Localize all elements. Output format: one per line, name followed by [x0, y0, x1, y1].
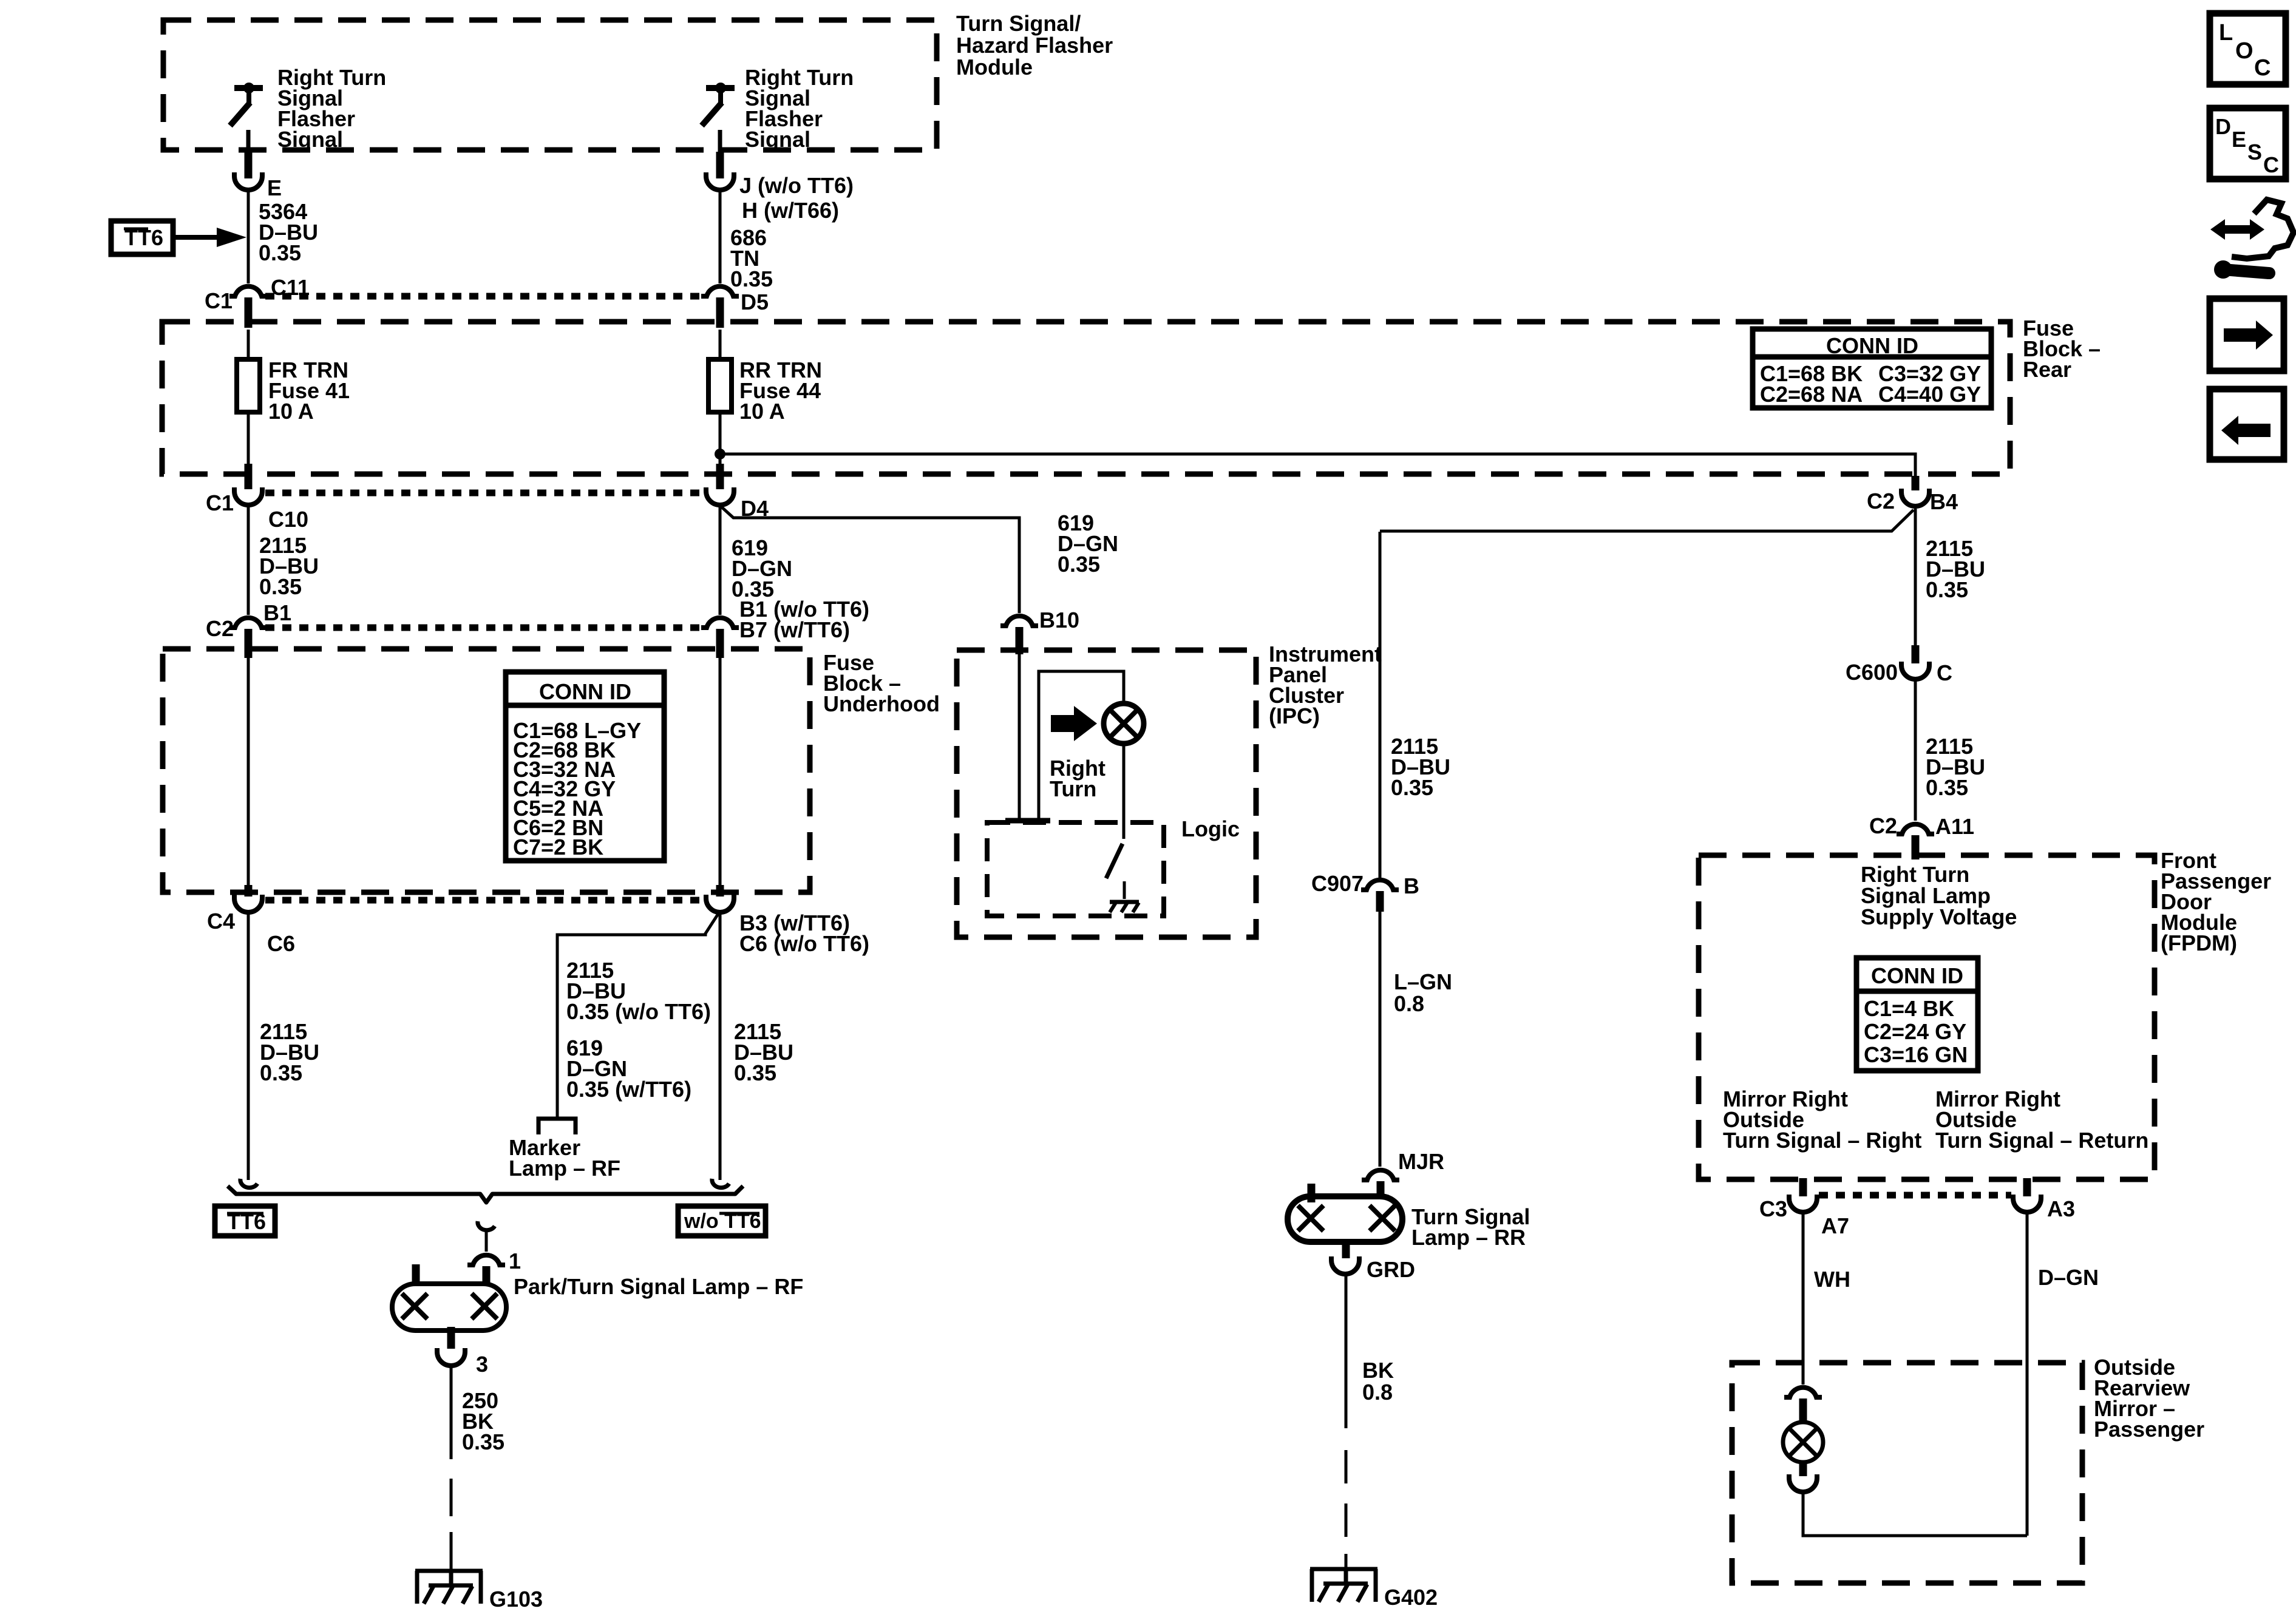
svg-text:0.35: 0.35: [462, 1429, 504, 1454]
connector C3/A7: [1799, 1178, 1807, 1196]
wire BK 0.8: [1345, 1274, 1348, 1428]
w/o TT6 tag: [678, 1206, 766, 1236]
logic switch: [1106, 844, 1123, 878]
connector C600/C: [1912, 645, 1920, 663]
svg-text:CONN ID: CONN ID: [1826, 333, 1918, 358]
svg-text:E: E: [2232, 127, 2246, 152]
svg-text:C2: C2: [1869, 813, 1897, 838]
connector pin 1: [467, 1255, 505, 1265]
svg-text:Signal: Signal: [745, 127, 810, 152]
wire loop to indicator: [1039, 671, 1124, 821]
dotted net A7-A3: [1819, 1192, 2011, 1199]
connector A3: [2023, 1178, 2031, 1196]
TT6 option box with arrow: [111, 221, 246, 254]
dotted net C4-B3: [265, 897, 703, 904]
wire: flasher output to J (right): [718, 130, 722, 153]
svg-text:BK: BK: [1362, 1358, 1394, 1383]
icon hand with arrows and wrench: [2210, 200, 2294, 279]
lamp: Park/Turn Signal Lamp - RF: [392, 1264, 803, 1349]
svg-text:0.35: 0.35: [260, 1060, 302, 1085]
svg-text:A7: A7: [1821, 1213, 1849, 1238]
wire through underhood block (left): [247, 656, 250, 886]
wire break hook (left): [240, 1179, 257, 1188]
svg-text:Signal: Signal: [277, 127, 343, 152]
svg-text:B7 (w/TT6): B7 (w/TT6): [739, 617, 850, 642]
lamp: Turn Signal Lamp - RR: [1288, 1184, 1530, 1258]
fuse F44: RR TRN Fuse 44 10 A: [719, 330, 722, 361]
svg-text:C907: C907: [1311, 871, 1364, 896]
dotted net B1-B7: [265, 625, 704, 631]
svg-text:B10: B10: [1039, 608, 1079, 632]
fuse F41: FR TRN Fuse 41 10 A: [247, 330, 250, 361]
svg-text:0.35 (w/o TT6): 0.35 (w/o TT6): [566, 999, 711, 1024]
svg-text:0.35: 0.35: [1926, 775, 1968, 800]
svg-text:C600: C600: [1846, 660, 1898, 685]
wire 2115 D-BU 0.35 (C10 to B1): [247, 505, 250, 615]
svg-text:Rear: Rear: [2023, 357, 2071, 382]
junction node after fuse 44: [715, 449, 725, 459]
svg-text:1: 1: [509, 1249, 521, 1273]
svg-text:A11: A11: [1935, 814, 1974, 839]
svg-text:C6: C6: [267, 931, 295, 956]
svg-text:0.35: 0.35: [1058, 552, 1100, 577]
svg-text:C1=4 BK: C1=4 BK: [1864, 996, 1954, 1021]
wire B10 into logic: [1018, 653, 1021, 821]
svg-text:CONN ID: CONN ID: [1871, 963, 1963, 988]
svg-text:GRD: GRD: [1367, 1257, 1415, 1282]
svg-text:L–GN: L–GN: [1394, 969, 1452, 994]
wire lamp to logic switch: [1123, 744, 1126, 839]
wire branch B3 to marker lamp: [557, 913, 719, 1117]
icon DESC: [2210, 108, 2286, 179]
svg-text:C10: C10: [268, 507, 308, 532]
CONN ID table (FPDM): [1856, 958, 1978, 1071]
svg-text:0.8: 0.8: [1394, 991, 1424, 1016]
svg-text:C4: C4: [207, 909, 235, 934]
svg-text:Passenger: Passenger: [2094, 1417, 2204, 1442]
svg-text:C: C: [2254, 55, 2271, 81]
TT6 tag: [215, 1206, 275, 1236]
wire mirror return loop: [1803, 1492, 2027, 1536]
svg-text:Turn Signal/: Turn Signal/: [956, 11, 1081, 36]
svg-text:Module: Module: [956, 55, 1033, 80]
wire L-GN 0.8: [1379, 912, 1382, 1167]
svg-text:Supply Voltage: Supply Voltage: [1861, 904, 2017, 929]
svg-text:0.35: 0.35: [259, 240, 301, 265]
svg-text:Lamp – RR: Lamp – RR: [1411, 1225, 1526, 1250]
brace merging TT6 / w-o TT6 feeds: [228, 1186, 743, 1202]
mirror lamp connector (bottom): [1799, 1461, 1807, 1476]
connector B10: [1000, 616, 1038, 626]
dotted net C10-D4: [265, 490, 703, 497]
wire 2115 D-BU 0.35 (C600 to A11): [1914, 680, 1917, 821]
icon arrow next: [2210, 299, 2284, 371]
svg-text:0.35: 0.35: [1391, 775, 1433, 800]
mirror turn signal lamp: [1783, 1422, 1823, 1462]
svg-text:B1: B1: [263, 600, 291, 625]
svg-text:Hazard Flasher: Hazard Flasher: [956, 33, 1113, 58]
svg-text:C6 (w/o TT6): C6 (w/o TT6): [739, 931, 869, 956]
svg-text:10 A: 10 A: [739, 399, 785, 424]
wire 250 BK 0.35: [450, 1366, 453, 1459]
svg-text:3: 3: [476, 1352, 488, 1377]
wire through underhood block (right): [719, 656, 722, 886]
connector pin E: [234, 172, 262, 190]
icon arrow back: [2210, 389, 2284, 459]
fuse block underhood box: [163, 649, 810, 892]
dotted net C1-D5: [265, 293, 704, 300]
svg-text:Park/Turn Signal Lamp – RF: Park/Turn Signal Lamp – RF: [514, 1274, 803, 1299]
connector D4: [716, 464, 724, 489]
svg-text:C3=16 GN: C3=16 GN: [1864, 1042, 1968, 1067]
svg-text:10 A: 10 A: [268, 399, 314, 424]
svg-text:H (w/T66): H (w/T66): [742, 198, 839, 223]
svg-text:C2=24 GY: C2=24 GY: [1864, 1019, 1966, 1044]
svg-text:C1: C1: [206, 490, 234, 515]
svg-text:Lamp – RF: Lamp – RF: [509, 1156, 620, 1181]
svg-text:D: D: [2215, 114, 2231, 139]
svg-text:0.8: 0.8: [1362, 1380, 1393, 1405]
connector pin J: [706, 172, 734, 190]
svg-text:B: B: [1404, 873, 1419, 898]
wire break hook (right): [712, 1179, 729, 1188]
wire WH: [1802, 1212, 1805, 1385]
CONN ID table (underhood): [506, 672, 664, 861]
wire break hook below brace: [478, 1221, 495, 1230]
FPDM box: Front Passenger Door Module: [1699, 855, 2155, 1179]
svg-text:D–GN: D–GN: [2038, 1265, 2099, 1290]
indicator arrow icon: [1051, 706, 1097, 741]
svg-text:L: L: [2219, 20, 2233, 46]
svg-text:0.35 (w/TT6): 0.35 (w/TT6): [566, 1077, 691, 1102]
svg-text:D5: D5: [741, 290, 769, 314]
CONN ID table (rear): [1753, 329, 1991, 408]
svg-text:G103: G103: [489, 1587, 543, 1612]
icon LOC: [2210, 13, 2286, 84]
svg-text:C: C: [2263, 152, 2279, 177]
wire 619 D-GN 0.35 (D4 down to B7): [719, 505, 722, 615]
module box: Turn Signal / Hazard Flasher Module: [163, 20, 937, 150]
svg-text:MJR: MJR: [1398, 1149, 1444, 1174]
switch S2: Right Turn Signal Flasher Signal (right): [702, 65, 854, 152]
wire 619 D-GN 0.35 (D4 branch to IPC B10): [720, 506, 1019, 613]
switch S1: Right Turn Signal Flasher Signal (left): [230, 65, 386, 152]
indicator lamp: Right Turn: [1104, 703, 1144, 744]
marker lamp RF terminal: [538, 1119, 576, 1134]
fuse block rear box: [162, 322, 2010, 474]
svg-text:Turn Signal – Right: Turn Signal – Right: [1723, 1128, 1921, 1153]
svg-text:C2=68 NA: C2=68 NA: [1760, 382, 1863, 407]
wire: junction to B4 column: [720, 454, 1915, 480]
wire D-GN: [2026, 1212, 2029, 1536]
mirror lamp connector (top): [1784, 1388, 1822, 1397]
svg-text:Logic: Logic: [1181, 816, 1240, 841]
svg-text:(IPC): (IPC): [1269, 703, 1320, 728]
svg-text:C: C: [1937, 660, 1952, 685]
svg-text:C4=40 GY: C4=40 GY: [1878, 382, 1981, 407]
svg-text:B4: B4: [1930, 489, 1958, 514]
svg-text:WH: WH: [1814, 1267, 1850, 1292]
wire (dashed run to G402): [1345, 1450, 1348, 1483]
mirror box: Outside Rearview Mirror - Passenger: [1732, 1363, 2082, 1583]
wire 2115 D-BU 0.35 (right drop): [719, 912, 722, 1180]
svg-text:S: S: [2247, 140, 2262, 164]
connector B3/C6: [716, 885, 724, 897]
wire: flasher output to E (left): [246, 130, 251, 153]
wire 686 TN 0.35: [719, 192, 722, 283]
svg-text:Turn Signal – Return: Turn Signal – Return: [1935, 1128, 2148, 1153]
logic box: [987, 822, 1164, 916]
svg-text:0.35: 0.35: [259, 574, 302, 599]
svg-text:C3: C3: [1759, 1196, 1787, 1221]
connector pin 3: [437, 1348, 465, 1366]
svg-text:G402: G402: [1384, 1585, 1438, 1610]
svg-text:J (w/o TT6): J (w/o TT6): [739, 173, 854, 198]
svg-text:(FPDM): (FPDM): [2161, 931, 2237, 955]
svg-text:0.35: 0.35: [730, 266, 773, 291]
connector GRD: [1331, 1256, 1359, 1274]
ground G402: [1310, 1569, 1438, 1610]
svg-text:CONN ID: CONN ID: [539, 679, 631, 704]
wire 5364 D-BU 0.35: [247, 192, 250, 283]
wire brace to pin 1: [485, 1232, 488, 1252]
svg-text:0.35: 0.35: [734, 1060, 776, 1085]
svg-text:C1: C1: [205, 288, 233, 313]
wire 2115 D-BU 0.35 (left drop): [247, 912, 250, 1180]
svg-text:O: O: [2235, 38, 2254, 64]
svg-text:E: E: [267, 175, 282, 200]
wire 2115 D-BU 0.35 (B4 to C600): [1914, 509, 1917, 646]
IPC box: Instrument Panel Cluster: [957, 650, 1256, 937]
logic ground: [1110, 902, 1139, 912]
wire B4 branch to C907 riser: [1380, 510, 1914, 531]
svg-text:Turn: Turn: [1050, 776, 1096, 801]
svg-text:C7=2 BK: C7=2 BK: [513, 835, 603, 859]
ground G103: [415, 1571, 543, 1612]
svg-text:C2: C2: [1867, 489, 1895, 514]
wire (dashed run to G103): [450, 1479, 453, 1516]
svg-text:0.35: 0.35: [1926, 577, 1968, 602]
svg-text:A3: A3: [2047, 1196, 2075, 1221]
svg-text:Underhood: Underhood: [823, 691, 940, 716]
